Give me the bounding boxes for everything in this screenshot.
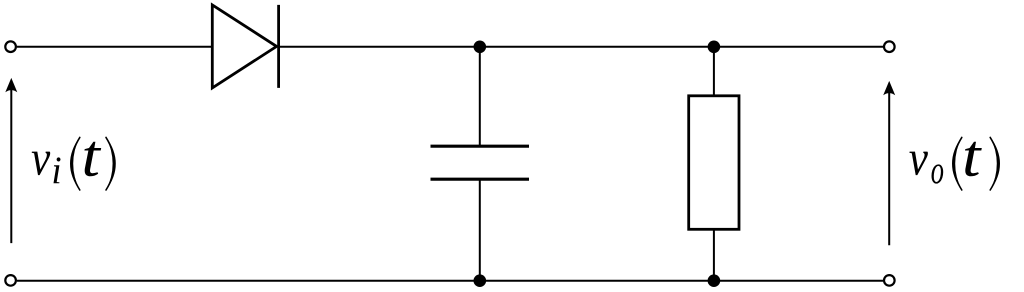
arrow shaft: output voltage reference <box>888 91 890 245</box>
label v_o(t): letter t <box>965 142 982 177</box>
wire: node B to output top terminal <box>714 46 883 48</box>
wire: bottom, node D to output bottom terminal <box>714 280 883 282</box>
capacitor C1: top plate <box>431 145 530 148</box>
label v_i(t): close paren <box>106 137 116 191</box>
node C: bottom junction at capacitor <box>474 274 487 287</box>
label v_o(t): close paren <box>990 137 1000 191</box>
node A: top junction at capacitor <box>474 41 487 54</box>
diode D1 cathode bar <box>277 5 280 88</box>
resistor R1: body <box>689 96 739 230</box>
wire: node A to node B <box>480 46 714 48</box>
label v_i(t): letter t <box>84 142 101 177</box>
node B: top junction at resistor <box>708 41 721 54</box>
terminal: output bottom (open circle) <box>884 275 895 286</box>
capacitor C1: bottom plate <box>431 178 530 181</box>
label v_o(t): subscript o <box>932 164 944 183</box>
label v_i(t): letter v <box>32 152 51 176</box>
resistor R1: bottom lead <box>713 229 715 280</box>
wire: bottom, input terminal to node C <box>17 280 480 282</box>
arrow head: input voltage reference <box>5 78 17 92</box>
label v_o(t): letter v <box>909 152 928 176</box>
terminal: input bottom (open circle) <box>5 275 16 286</box>
wire: bottom, node C to node D <box>480 280 714 282</box>
node D: bottom junction at resistor <box>708 274 721 287</box>
arrow head: output voltage reference <box>883 81 895 95</box>
arrow shaft: input voltage reference <box>10 88 12 243</box>
label v_o(t): open paren <box>952 137 962 191</box>
terminal: input top (open circle) <box>5 41 16 52</box>
capacitor C1: top lead <box>479 47 481 146</box>
label v_i(t): subscript i <box>54 157 61 183</box>
wire: diode cathode to node A <box>279 46 480 48</box>
diode D1 (triangle anode) <box>212 5 276 88</box>
resistor R1: top lead <box>713 47 715 96</box>
label v_i(t): open paren <box>70 137 80 191</box>
terminal: output top (open circle) <box>884 41 895 52</box>
wire: input top terminal to diode anode <box>17 46 212 48</box>
capacitor C1: bottom lead <box>479 179 481 281</box>
